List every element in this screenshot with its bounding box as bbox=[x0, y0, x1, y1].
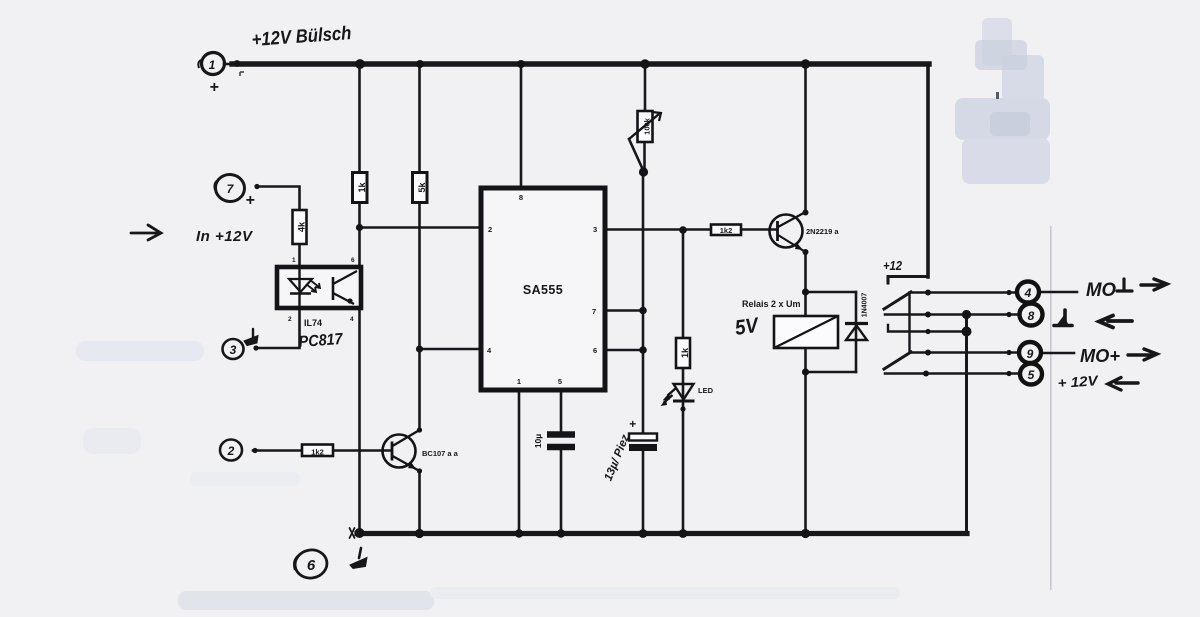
wire timing net vertical (x=643) bbox=[642, 172, 645, 433]
transistor Q2 2N2219 bbox=[770, 215, 803, 248]
svg-text:PC817: PC817 bbox=[298, 331, 344, 351]
junction terminal2 stub bbox=[252, 448, 257, 453]
terminal 6 bbox=[293, 547, 329, 580]
svg-text:MO: MO bbox=[1086, 280, 1116, 301]
wire relay contact row4 to terminal9 bbox=[910, 351, 1019, 354]
svg-text:4: 4 bbox=[1024, 286, 1032, 300]
resistor R2 15k (x=420) bbox=[413, 173, 428, 203]
potentiometer P1 100k bbox=[638, 111, 653, 142]
LED D2 bbox=[674, 384, 694, 400]
input arrow left bbox=[131, 225, 161, 240]
wire relay coil bottom bbox=[804, 348, 807, 533]
junction pin4 net bbox=[416, 345, 423, 352]
junction Q2 emitter bbox=[803, 249, 809, 255]
junction pot wiper bbox=[639, 167, 648, 176]
svg-text:1k: 1k bbox=[680, 347, 690, 358]
wire terminal1 stub bbox=[224, 63, 240, 66]
terminal 5 bbox=[1020, 364, 1042, 385]
wire +12V top rail bbox=[232, 61, 929, 66]
resistor R3 4k7 (terminal7 feed) bbox=[293, 210, 307, 244]
node mark under terminal1 wire bbox=[240, 72, 244, 76]
scan smudge bottom band bbox=[178, 591, 434, 610]
wire ground bottom rail bbox=[357, 531, 967, 536]
svg-text:4k: 4k bbox=[296, 221, 306, 232]
wire +12 bracket at contacts bbox=[888, 277, 928, 284]
junction contact row3 left bbox=[925, 329, 930, 334]
svg-text:9: 9 bbox=[1027, 347, 1034, 361]
resistor R6 1k2 (pin3 to Q2) bbox=[711, 225, 741, 236]
wire rail to potentiometer bbox=[644, 64, 647, 112]
resistor R5 1k (LED branch) bbox=[676, 338, 690, 368]
svg-text:4: 4 bbox=[350, 316, 354, 323]
junction Q1 collector bbox=[417, 427, 422, 432]
svg-text:In +12V: In +12V bbox=[196, 228, 254, 245]
junction contact row3 riser bbox=[962, 327, 972, 337]
junction pin3 LED branch bbox=[679, 226, 687, 234]
junction contact row4 left bbox=[925, 350, 931, 356]
ground at terminal 3 bbox=[244, 329, 258, 346]
wire terminal9 out bbox=[1041, 352, 1074, 355]
wire relay top to diode bbox=[806, 291, 857, 294]
svg-text:3: 3 bbox=[593, 225, 597, 234]
svg-text:1N4007: 1N4007 bbox=[861, 293, 868, 318]
svg-text:MO+: MO+ bbox=[1080, 346, 1120, 366]
junction ground rail x420 bbox=[415, 529, 424, 538]
junction pin7 bbox=[639, 307, 647, 315]
junction contact row4 right bbox=[1006, 350, 1011, 355]
junction contact row2 riser bbox=[962, 310, 971, 319]
wire terminal7 to R3 bbox=[256, 187, 300, 268]
ground label row2 bbox=[1054, 310, 1132, 328]
terminal 7 bbox=[214, 173, 246, 203]
wire top rail right drop bbox=[926, 64, 930, 277]
junction ground rail x806 bbox=[801, 529, 810, 538]
junction contact row2 right bbox=[1006, 312, 1011, 317]
wire terminal2 to R7 to Q1 base bbox=[253, 449, 392, 452]
junction LED bottom bbox=[680, 406, 685, 411]
wire vertical net pin4 (x=420) bbox=[418, 64, 421, 533]
junction Q2 collector bbox=[803, 210, 809, 216]
junction ground rail x683 bbox=[679, 529, 688, 538]
svg-text:2: 2 bbox=[227, 444, 235, 458]
junction relay top bbox=[802, 288, 809, 295]
junction contact row5 left bbox=[923, 371, 929, 377]
wire 555 pin4 horizontal bbox=[420, 348, 482, 351]
svg-text:8: 8 bbox=[519, 193, 523, 202]
svg-text:BC107 a a: BC107 a a bbox=[422, 449, 459, 458]
wire 555 pin3 to R6 and Q2 base bbox=[605, 228, 778, 231]
resistor R1 1k (x=360) bbox=[353, 173, 368, 203]
wire 555 pin6 stub bbox=[605, 349, 643, 352]
svg-text:Relais 2 x Um: Relais 2 x Um bbox=[742, 299, 801, 309]
scan smudge left middle bbox=[76, 341, 204, 361]
terminal 1 bbox=[198, 51, 226, 76]
wire relay contact row2 to terminal8 bbox=[885, 313, 1021, 316]
wire potentiometer to timing net bbox=[643, 141, 646, 172]
svg-text:+ 12V: + 12V bbox=[1057, 372, 1100, 391]
X mark at rail start bbox=[350, 528, 355, 538]
wire diode vertical bbox=[855, 292, 858, 372]
wire relay contact row3 bbox=[888, 325, 967, 332]
junction relay bottom bbox=[802, 368, 809, 375]
wire relay contact row1 to terminal4 bbox=[910, 291, 1019, 294]
junction contact row1 right bbox=[1006, 290, 1011, 295]
ground at terminal 6 bbox=[350, 548, 367, 569]
wire contact link verticals bbox=[908, 293, 910, 353]
wire 555 pin1 to ground bbox=[518, 390, 521, 533]
junction ground rail x643 bbox=[639, 529, 648, 538]
wire optocoupler emitter to terminal3 bbox=[257, 308, 300, 348]
junction ground rail x358 bbox=[355, 528, 365, 538]
svg-text:1k2: 1k2 bbox=[311, 448, 324, 457]
junction rail x806 bbox=[801, 59, 810, 68]
junction rail x420 bbox=[416, 60, 424, 68]
optocoupler phototransistor bbox=[332, 277, 335, 300]
svg-text:5k: 5k bbox=[417, 182, 427, 193]
wire relay contact row5 to terminal5 bbox=[885, 372, 1021, 375]
junction contact row2 left bbox=[925, 312, 931, 318]
svg-text:6: 6 bbox=[351, 257, 355, 264]
svg-text:8: 8 bbox=[1028, 309, 1035, 323]
svg-text:+: + bbox=[245, 192, 254, 209]
svg-text:6: 6 bbox=[593, 346, 597, 355]
svg-text:LED: LED bbox=[698, 386, 714, 395]
terminal 4 bbox=[1017, 282, 1039, 303]
svg-text:SA555: SA555 bbox=[523, 283, 563, 297]
junction rail x645 bbox=[640, 59, 649, 68]
junction pin2 net bbox=[356, 224, 363, 231]
junction Q1 emitter bbox=[417, 468, 422, 473]
wire switch arm lower bbox=[884, 352, 911, 369]
optocoupler led arrows bbox=[306, 284, 316, 292]
junction contact row5 right bbox=[1006, 371, 1011, 376]
svg-text:10µ: 10µ bbox=[533, 434, 543, 448]
svg-text:1: 1 bbox=[209, 58, 216, 72]
svg-text:2: 2 bbox=[288, 316, 292, 323]
optocoupler U2 IL74 box bbox=[277, 267, 361, 308]
junction rail x521 bbox=[517, 60, 525, 68]
svg-text:+: + bbox=[629, 417, 636, 431]
svg-text:5: 5 bbox=[558, 377, 562, 386]
svg-text:1: 1 bbox=[292, 257, 296, 264]
scan speck bbox=[996, 92, 999, 99]
wire switch arm upper bbox=[884, 292, 911, 309]
wire timing cap to ground rail bbox=[642, 451, 645, 533]
terminal 3 bbox=[223, 339, 244, 359]
svg-text:+12: +12 bbox=[883, 259, 902, 273]
wire pot wiper bbox=[629, 139, 644, 171]
wire LED branch (x=683) bbox=[682, 230, 685, 533]
junction terminal7 stub bbox=[254, 184, 259, 189]
diode D1 1N4007 bbox=[846, 326, 867, 341]
svg-text:2: 2 bbox=[488, 225, 492, 234]
junction contact row1 left bbox=[925, 290, 931, 296]
terminal 2 bbox=[220, 440, 242, 461]
scan bleed-through blob top right bbox=[955, 18, 1050, 184]
wire 555 pin2 horizontal bbox=[360, 226, 482, 229]
wire bottom rail right riser bbox=[965, 315, 968, 533]
junction rail x360 bbox=[355, 59, 365, 69]
terminal 8 bbox=[1020, 304, 1043, 326]
op-amp U1 SA555 timer box bbox=[481, 188, 605, 390]
scan smudge left lower bbox=[83, 428, 141, 454]
junction ground rail x561 bbox=[557, 529, 565, 537]
svg-text:5: 5 bbox=[1028, 368, 1035, 382]
svg-text:3: 3 bbox=[230, 343, 237, 357]
svg-text:6: 6 bbox=[307, 557, 316, 574]
junction ground rail x519 bbox=[515, 529, 523, 537]
wire Q2 emitter to relay bbox=[804, 252, 807, 316]
svg-text:+: + bbox=[209, 79, 218, 96]
optocoupler internal led bbox=[298, 267, 300, 308]
wire vertical net pin2 (x=360) bbox=[358, 64, 361, 533]
junction pin6 bbox=[639, 346, 647, 354]
transistor Q1 BC107 bbox=[383, 435, 416, 468]
scan fold line right bbox=[1050, 226, 1052, 590]
wire 555 pin5 to C1 bbox=[560, 390, 563, 533]
wire Q2 collector to rail bbox=[804, 64, 807, 213]
svg-text:2N2219 a: 2N2219 a bbox=[806, 227, 839, 236]
relay K1 coil bbox=[774, 316, 838, 348]
terminal 9 bbox=[1019, 342, 1041, 363]
resistor R7 1k2 (terminal2 to Q1) bbox=[302, 445, 333, 457]
svg-text:7: 7 bbox=[592, 307, 596, 316]
wire 555 pin8 to rail bbox=[520, 64, 523, 188]
capacitor C2 piezo bbox=[629, 434, 657, 441]
svg-text:1k: 1k bbox=[357, 182, 367, 193]
wire terminal4 out bbox=[1040, 291, 1077, 294]
junction terminal1 stub bbox=[234, 60, 241, 67]
svg-text:1k2: 1k2 bbox=[720, 226, 733, 235]
svg-text:IL74: IL74 bbox=[304, 318, 322, 328]
capacitor C1 10u bbox=[547, 431, 575, 438]
wire 555 pin7 stub bbox=[605, 309, 643, 312]
svg-text:1: 1 bbox=[517, 377, 521, 386]
junction terminal3 stub bbox=[253, 345, 258, 350]
wire relay bottom to diode bbox=[806, 371, 857, 374]
